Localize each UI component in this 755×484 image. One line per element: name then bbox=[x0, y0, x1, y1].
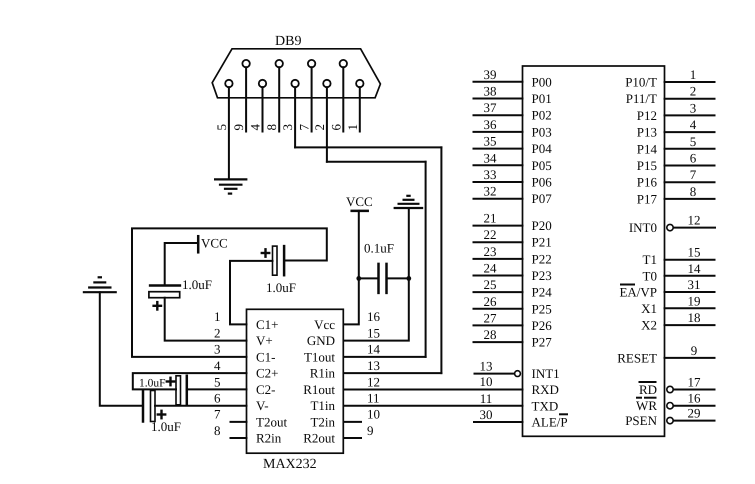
wire MCU pin37 P02 bbox=[474, 114, 523, 116]
wire MCU pin12 INT0 bbox=[673, 227, 715, 229]
MAX232 left pin numbers bbox=[214, 309, 221, 438]
svg-text:R1in: R1in bbox=[310, 366, 336, 381]
svg-text:1.0uF: 1.0uF bbox=[139, 378, 166, 390]
svg-text:V+: V+ bbox=[256, 333, 273, 348]
wire MCU pin14 T0 bbox=[665, 275, 715, 277]
svg-text:2: 2 bbox=[690, 84, 697, 99]
svg-text:8: 8 bbox=[264, 124, 279, 131]
svg-text:INT1: INT1 bbox=[532, 366, 560, 381]
svg-text:4: 4 bbox=[690, 117, 697, 132]
wire ground to C4 bbox=[100, 292, 143, 406]
svg-text:1: 1 bbox=[214, 309, 221, 324]
svg-text:13: 13 bbox=[480, 359, 493, 374]
DB9 pin 7 circle bbox=[308, 60, 315, 67]
wire MCU pin33 P06 bbox=[474, 181, 523, 183]
svg-text:P23: P23 bbox=[532, 268, 552, 283]
wire R1in vertical bbox=[440, 147, 442, 373]
svg-text:TXD: TXD bbox=[532, 398, 559, 413]
svg-text:P15: P15 bbox=[637, 158, 657, 173]
wire T1in to TXD bbox=[344, 405, 523, 407]
svg-text:P16: P16 bbox=[637, 175, 658, 190]
bubble INT0 bbox=[667, 224, 673, 230]
svg-text:14: 14 bbox=[688, 261, 702, 276]
svg-text:15: 15 bbox=[367, 325, 380, 340]
svg-text:5: 5 bbox=[690, 134, 697, 149]
wire MCU pin15 T1 bbox=[665, 259, 715, 261]
svg-text:10: 10 bbox=[480, 374, 493, 389]
svg-text:13: 13 bbox=[367, 358, 380, 373]
svg-text:P25: P25 bbox=[532, 301, 552, 316]
DB9 pin 5 circle bbox=[225, 80, 232, 87]
svg-text:1.0uF: 1.0uF bbox=[182, 277, 212, 292]
wire MAX232 pin10 stub bbox=[345, 421, 362, 423]
svg-text:T1in: T1in bbox=[310, 398, 335, 413]
svg-text:RD: RD bbox=[639, 382, 657, 397]
bubble RD bbox=[667, 386, 673, 392]
svg-text:5: 5 bbox=[214, 374, 221, 389]
plus sign of C2 bbox=[167, 380, 174, 382]
capacitor C3 bottom hollow plate bbox=[149, 292, 180, 298]
svg-text:PSEN: PSEN bbox=[625, 413, 657, 428]
svg-text:9: 9 bbox=[691, 343, 698, 358]
svg-text:10: 10 bbox=[367, 407, 380, 422]
svg-text:6: 6 bbox=[329, 124, 344, 131]
svg-text:23: 23 bbox=[484, 244, 497, 259]
wire MCU pin25 P24 bbox=[474, 291, 523, 293]
svg-text:17: 17 bbox=[688, 375, 702, 390]
svg-text:P04: P04 bbox=[532, 141, 553, 156]
capacitor C4 hollow plate bbox=[151, 391, 156, 422]
overline WR bbox=[636, 397, 642, 399]
plus sign of C4 bbox=[158, 413, 165, 415]
svg-text:P02: P02 bbox=[532, 108, 552, 123]
svg-text:RESET: RESET bbox=[617, 350, 657, 365]
svg-text:26: 26 bbox=[484, 294, 498, 309]
svg-text:T1out: T1out bbox=[304, 349, 335, 364]
svg-text:2: 2 bbox=[214, 325, 221, 340]
wire cap right bbox=[387, 277, 409, 279]
wire MCU pin16 WR bbox=[673, 405, 714, 407]
svg-text:2: 2 bbox=[312, 124, 327, 131]
wire DB9 pin 1 stub bbox=[359, 87, 361, 131]
wire MCU pin31 EA bbox=[665, 291, 715, 293]
wire MCU pin19 X1 bbox=[665, 307, 715, 309]
wire MCU pin29 PSEN bbox=[673, 420, 714, 422]
wire MCU pin17 RD bbox=[673, 389, 714, 391]
svg-text:C1+: C1+ bbox=[256, 317, 279, 332]
capacitor C1 solid plate bbox=[283, 246, 286, 275]
svg-text:14: 14 bbox=[367, 342, 381, 357]
wire MCU pin28 P27 bbox=[474, 341, 523, 343]
svg-text:T2out: T2out bbox=[256, 414, 287, 429]
svg-text:VCC: VCC bbox=[201, 236, 228, 251]
svg-text:R1out: R1out bbox=[303, 382, 335, 397]
wire MAX232 pin1 up bbox=[230, 261, 273, 325]
svg-text:P22: P22 bbox=[532, 251, 552, 266]
wire DB9 pin3 to R1in horizontal bbox=[295, 146, 441, 148]
svg-text:5: 5 bbox=[214, 124, 229, 131]
svg-text:T0: T0 bbox=[643, 268, 657, 283]
svg-text:18: 18 bbox=[688, 310, 701, 325]
svg-text:16: 16 bbox=[367, 309, 381, 324]
DB9 pin 4 circle bbox=[259, 80, 266, 87]
svg-text:ALE/P: ALE/P bbox=[532, 415, 568, 430]
svg-text:37: 37 bbox=[484, 100, 498, 115]
wire MAX232 pin4 to C2 bbox=[133, 373, 247, 389]
svg-text:DB9: DB9 bbox=[275, 34, 301, 49]
bubble PSEN bbox=[667, 417, 673, 423]
svg-text:21: 21 bbox=[484, 211, 497, 226]
capacitor C4 solid plate bbox=[142, 391, 145, 422]
wire MCU pin2 P11 bbox=[665, 98, 715, 100]
svg-text:P01: P01 bbox=[532, 91, 552, 106]
MAX232 right pin numbers bbox=[367, 309, 381, 438]
MCU right pin numbers bbox=[688, 67, 702, 421]
svg-text:P26: P26 bbox=[532, 318, 553, 333]
svg-text:P24: P24 bbox=[532, 285, 553, 300]
capacitor C2 solid plate bbox=[186, 376, 189, 405]
wire cap left bbox=[359, 277, 379, 279]
capacitor C2 hollow plate bbox=[176, 376, 181, 405]
svg-text:3: 3 bbox=[280, 124, 295, 131]
plus sign of C3 bbox=[154, 305, 161, 307]
svg-text:P11/T: P11/T bbox=[626, 91, 657, 106]
svg-text:12: 12 bbox=[367, 374, 380, 389]
svg-text:6: 6 bbox=[690, 151, 697, 166]
svg-text:3: 3 bbox=[690, 100, 697, 115]
wire MAX232 pin8 stub bbox=[231, 437, 247, 439]
capacitor 0.1uF right plate bbox=[385, 264, 388, 293]
overline RD bbox=[639, 381, 657, 383]
wire R1out to RXD bbox=[344, 389, 523, 391]
wire MCU pin1 P10 bbox=[665, 81, 715, 83]
overline ALE/P bbox=[559, 413, 568, 415]
wire MCU pin36 P03 bbox=[474, 131, 523, 133]
MCU left labels bbox=[532, 74, 568, 429]
svg-text:P21: P21 bbox=[532, 235, 552, 250]
connector DB9 outline bbox=[212, 49, 380, 98]
svg-text:Vcc: Vcc bbox=[314, 317, 335, 332]
DB9 pin 2 circle bbox=[323, 80, 330, 87]
bubble WR bbox=[667, 403, 673, 409]
wire MCU pin21 P20 bbox=[474, 225, 523, 227]
svg-text:P27: P27 bbox=[532, 335, 553, 350]
wire GND rail down to pin15 bbox=[344, 208, 409, 341]
overline EA bbox=[620, 284, 635, 286]
MCU left pin numbers bbox=[480, 67, 498, 422]
svg-text:38: 38 bbox=[484, 84, 497, 99]
wire DB9 pin 6 stub bbox=[342, 67, 344, 131]
svg-text:R2in: R2in bbox=[256, 430, 282, 445]
svg-text:19: 19 bbox=[688, 293, 701, 308]
wire MCU pin22 P21 bbox=[474, 241, 523, 243]
wire MCU pin4 P13 bbox=[665, 131, 715, 133]
svg-text:7: 7 bbox=[297, 124, 312, 131]
junction dot right bbox=[406, 276, 411, 281]
junction dot left bbox=[356, 276, 361, 281]
wire MCU pin34 P05 bbox=[474, 164, 523, 166]
svg-text:15: 15 bbox=[688, 245, 701, 260]
svg-text:T2in: T2in bbox=[310, 414, 335, 429]
svg-text:9: 9 bbox=[367, 423, 374, 438]
DB9 pin 6 circle bbox=[340, 60, 347, 67]
MAX232 left pin labels bbox=[256, 317, 287, 446]
svg-text:7: 7 bbox=[214, 407, 221, 422]
svg-text:8: 8 bbox=[690, 184, 697, 199]
svg-text:7: 7 bbox=[690, 167, 697, 182]
svg-text:R2out: R2out bbox=[303, 430, 335, 445]
DB9 pin 3 circle bbox=[291, 80, 298, 87]
svg-text:11: 11 bbox=[367, 391, 380, 406]
svg-text:P13: P13 bbox=[637, 125, 657, 140]
wire MCU pin6 P15 bbox=[665, 165, 715, 167]
wire VCC rail down to pin16 bbox=[344, 211, 359, 325]
svg-text:9: 9 bbox=[231, 124, 246, 131]
svg-text:P12: P12 bbox=[637, 108, 657, 123]
plus sign of C1 bbox=[262, 252, 269, 254]
wire MCU pin39 P00 bbox=[474, 81, 523, 83]
wire MCU pin35 P04 bbox=[474, 148, 523, 150]
svg-text:P20: P20 bbox=[532, 218, 552, 233]
ground symbol inverted left bbox=[83, 277, 117, 292]
svg-text:WR: WR bbox=[636, 398, 657, 413]
wire DB9 pin 8 stub bbox=[278, 67, 280, 131]
wire DB9 pin 4 stub bbox=[262, 87, 264, 131]
wire DB9 pin2 to T1out horizontal bbox=[327, 161, 426, 163]
svg-text:4: 4 bbox=[214, 358, 221, 373]
wire MAX232 pin9 stub bbox=[345, 437, 362, 439]
chip MAX232 box bbox=[247, 309, 344, 453]
wire VCC to C3 top bbox=[165, 243, 199, 286]
wire MCU pin38 P01 bbox=[474, 98, 523, 100]
DB9 pin 9 circle bbox=[242, 60, 249, 67]
ground symbol inverted top bbox=[394, 196, 424, 208]
wire DB9 pin 5 to ground bbox=[228, 87, 230, 179]
svg-text:P17: P17 bbox=[637, 191, 658, 206]
svg-text:33: 33 bbox=[484, 167, 497, 182]
wire C4 to MAX232 pin6 bbox=[155, 405, 247, 407]
svg-text:T1: T1 bbox=[643, 252, 657, 267]
capacitor 0.1uF left plate bbox=[377, 264, 380, 293]
wire DB9 pin 2 down bbox=[326, 87, 328, 162]
chip MCU box bbox=[523, 66, 665, 436]
svg-text:0.1uF: 0.1uF bbox=[364, 241, 394, 256]
wire MCU pin32 P07 bbox=[474, 198, 523, 200]
svg-text:C1-: C1- bbox=[256, 349, 276, 364]
wire MCU pin18 X2 bbox=[665, 324, 715, 326]
wire DB9 pin 9 stub bbox=[245, 67, 247, 131]
DB9 pin 1 circle bbox=[356, 80, 363, 87]
capacitor C3 top plate bbox=[150, 284, 180, 287]
power VCC bar (top middle) bbox=[352, 210, 368, 213]
wire MCU pin8 P17 bbox=[665, 198, 715, 200]
svg-text:EA/VP: EA/VP bbox=[619, 285, 657, 300]
wire MCU pin23 P22 bbox=[474, 258, 523, 260]
svg-text:P07: P07 bbox=[532, 191, 553, 206]
wire DB9 pin 3 down bbox=[294, 87, 296, 147]
svg-text:25: 25 bbox=[484, 277, 497, 292]
wire C2 to MAX232 pin5 bbox=[187, 388, 247, 390]
svg-text:P00: P00 bbox=[532, 74, 552, 89]
svg-text:11: 11 bbox=[480, 391, 493, 406]
svg-text:22: 22 bbox=[484, 227, 497, 242]
wire MAX232 pin13 horizontal bbox=[344, 372, 442, 374]
svg-text:24: 24 bbox=[484, 261, 498, 276]
wire DB9 pin 7 stub bbox=[311, 67, 313, 131]
power VCC tick (left) bbox=[197, 236, 200, 252]
svg-text:8: 8 bbox=[214, 423, 221, 438]
wire MCU pin9 RESET bbox=[665, 357, 715, 359]
MCU right labels bbox=[617, 75, 657, 429]
DB9 pin 8 circle bbox=[276, 60, 283, 67]
MAX232 right pin labels bbox=[303, 317, 335, 446]
svg-text:27: 27 bbox=[484, 310, 498, 325]
svg-text:29: 29 bbox=[688, 406, 701, 421]
DB9 rotated pin numbers bbox=[214, 124, 360, 131]
svg-text:28: 28 bbox=[484, 327, 497, 342]
wire MCU pin27 P26 bbox=[474, 324, 523, 326]
svg-text:RXD: RXD bbox=[532, 382, 559, 397]
svg-text:P06: P06 bbox=[532, 175, 553, 190]
wire MCU pin3 P12 bbox=[665, 114, 715, 116]
wire C1 right plate loop to MAX232 pin3 bbox=[132, 228, 327, 357]
wire MCU pin30 ALE bbox=[474, 421, 523, 423]
svg-text:6: 6 bbox=[214, 391, 221, 406]
svg-text:39: 39 bbox=[484, 67, 497, 82]
wire T1out vertical bbox=[425, 162, 427, 357]
svg-text:P10/T: P10/T bbox=[625, 75, 657, 90]
svg-text:P14: P14 bbox=[637, 141, 658, 156]
wire MAX232 pin14 horizontal bbox=[344, 356, 426, 358]
svg-text:GND: GND bbox=[307, 333, 335, 348]
svg-text:V-: V- bbox=[256, 398, 269, 413]
svg-text:VCC: VCC bbox=[346, 194, 373, 209]
svg-text:12: 12 bbox=[688, 213, 701, 228]
svg-text:30: 30 bbox=[480, 407, 493, 422]
svg-text:31: 31 bbox=[688, 277, 701, 292]
wire C3 bottom to MAX232 pin2 bbox=[165, 298, 247, 341]
svg-text:X1: X1 bbox=[641, 301, 657, 316]
svg-text:P05: P05 bbox=[532, 158, 552, 173]
wire MCU pin26 P25 bbox=[474, 308, 523, 310]
svg-text:36: 36 bbox=[484, 117, 498, 132]
capacitor C1 hollow plate bbox=[273, 246, 278, 275]
svg-text:16: 16 bbox=[688, 391, 702, 406]
wire MCU pin24 P23 bbox=[474, 275, 523, 277]
svg-text:1: 1 bbox=[690, 67, 697, 82]
svg-text:1: 1 bbox=[345, 124, 360, 131]
svg-text:35: 35 bbox=[484, 134, 497, 149]
bubble INT1 bbox=[515, 371, 521, 377]
svg-text:P03: P03 bbox=[532, 124, 552, 139]
svg-text:32: 32 bbox=[484, 184, 497, 199]
ground symbol at DB9 pin 5 bbox=[214, 179, 247, 193]
wire MCU pin13 INT1 bbox=[475, 373, 515, 375]
svg-text:C2-: C2- bbox=[256, 382, 276, 397]
svg-text:34: 34 bbox=[484, 150, 498, 165]
svg-text:MAX232: MAX232 bbox=[263, 457, 317, 472]
svg-text:3: 3 bbox=[214, 342, 221, 357]
svg-text:1.0uF: 1.0uF bbox=[151, 419, 181, 434]
wire MCU pin7 P16 bbox=[665, 181, 715, 183]
svg-text:INT0: INT0 bbox=[629, 220, 657, 235]
wire MAX232 pin7 stub bbox=[231, 421, 247, 423]
wire MCU pin5 P14 bbox=[665, 148, 715, 150]
svg-text:4: 4 bbox=[248, 124, 263, 131]
svg-text:1.0uF: 1.0uF bbox=[266, 280, 296, 295]
svg-text:C2+: C2+ bbox=[256, 366, 279, 381]
svg-text:X2: X2 bbox=[641, 318, 657, 333]
